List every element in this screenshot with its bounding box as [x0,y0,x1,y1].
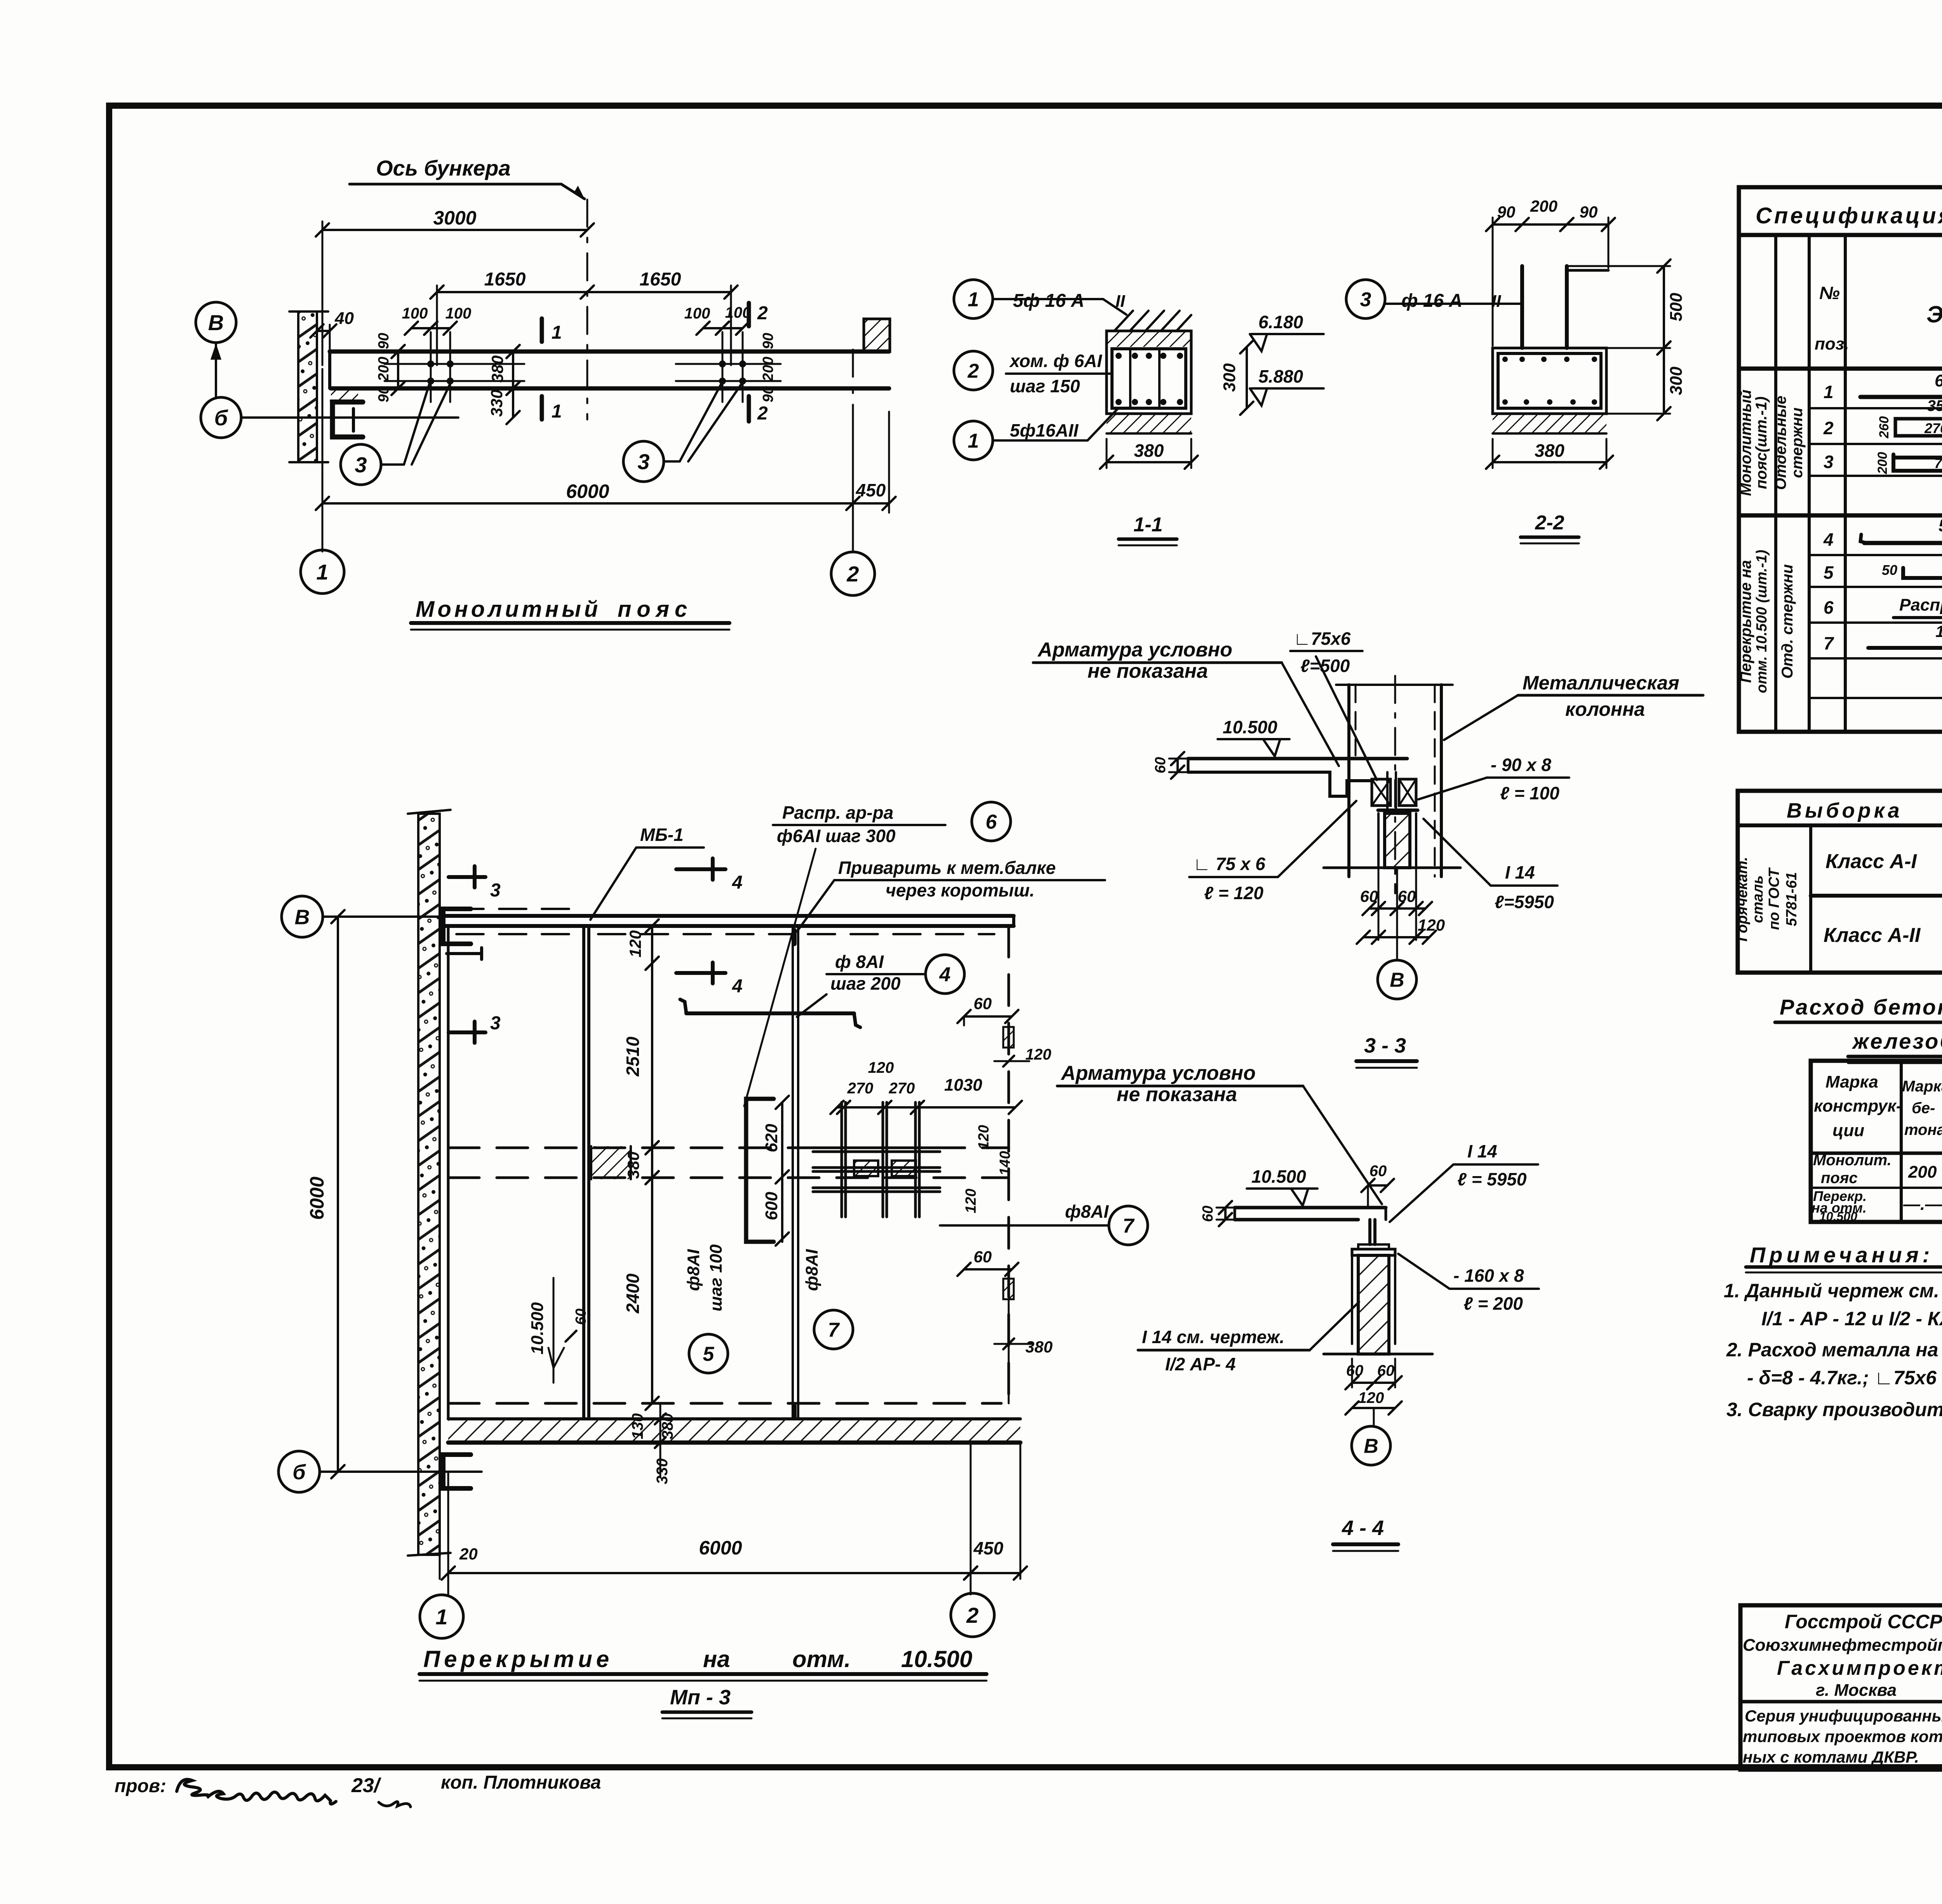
svg-text:1: 1 [552,401,562,422]
spec table title row [1739,233,1942,237]
dim 300 section 1-1 [1246,347,1248,408]
svg-text:300: 300 [1667,366,1686,395]
mesh detail (pos 7) [840,1102,843,1217]
svg-text:23/: 23/ [351,1774,382,1797]
svg-text:по ГОСТ: по ГОСТ [1766,867,1782,930]
section 2-2 concrete [1493,348,1606,414]
monolithic belt beam outline [330,350,889,354]
dim 6000 elevation [322,369,324,552]
svg-text:130: 130 [629,1413,646,1439]
wall section (left) [298,312,317,462]
svg-text:Монолитный: Монолитный [1737,390,1754,496]
svg-text:пров:: пров: [115,1776,166,1796]
svg-text:поз.: поз. [1815,334,1849,353]
svg-text:3: 3 [490,1013,501,1034]
svg-text:200: 200 [1530,197,1557,215]
svg-text:Отдельные: Отдельные [1772,396,1789,490]
svg-text:пояс: пояс [618,597,693,622]
section 1-1 concrete [1107,331,1191,414]
dim 500 [1663,266,1665,348]
svg-text:2400: 2400 [623,1273,643,1314]
svg-text:60: 60 [1200,1206,1216,1222]
svg-text:2: 2 [1823,418,1834,438]
svg-text:колонна: колонна [1565,698,1645,720]
svg-text:Мп - 3: Мп - 3 [670,1686,731,1709]
svg-text:600: 600 [762,1192,781,1220]
column hatched (4-4) [1358,1255,1389,1354]
dims 60 60 below 3-3 [1369,907,1425,910]
svg-text:тона: тона [1904,1121,1942,1138]
plan dashed middle beam [448,1147,1009,1149]
plan left slab edge [447,926,450,1419]
ground break (4-4) [1324,1353,1358,1356]
plan wall section [418,814,440,1555]
svg-text:350: 350 [1927,397,1942,414]
svg-text:3: 3 [637,449,649,474]
svg-text:шаг 100: шаг 100 [706,1244,726,1311]
svg-text:3: 3 [1360,289,1371,311]
svg-text:2. Расход металла на балку: 2. Расход металла на балку МБ-1; I 14 - … [1726,1339,1942,1361]
svg-text:3000: 3000 [433,207,476,229]
svg-text:1650: 1650 [640,269,681,290]
small vertical dims 90/200/90 left [397,352,399,388]
svg-text:Класс А-II: Класс А-II [1824,924,1921,947]
svg-text:4: 4 [732,976,743,997]
svg-text:2510: 2510 [623,1036,643,1077]
axis circle 1 (plan) [420,1595,463,1638]
svg-text:200: 200 [1875,452,1890,475]
svg-text:I 14: I 14 [1505,862,1535,882]
svg-text:ф8АI: ф8АI [1065,1201,1109,1222]
svg-text:В: В [1364,1435,1378,1458]
axis circle б [201,397,241,438]
slab section 4-4 [1235,1206,1386,1210]
dim 120 below 3-3 [1363,936,1429,938]
svg-text:2: 2 [968,360,979,383]
svg-text:через коротыш.: через коротыш. [886,880,1035,900]
svg-text:2-2: 2-2 [1535,512,1564,534]
dim 120 (4-4) [1352,1407,1395,1409]
svg-text:2: 2 [966,1603,978,1627]
svg-text:120: 120 [626,930,644,957]
dim 60 right edge lower + hatch block [964,1268,1012,1270]
svg-text:ф 8АI: ф 8АI [835,952,884,972]
svg-text:380: 380 [1535,440,1564,461]
svg-text:шаг 200: шаг 200 [830,973,901,994]
svg-text:Металлическая: Металлическая [1523,672,1679,694]
svg-text:7: 7 [1824,633,1834,653]
svg-text:Отд. стержни: Отд. стержни [1779,564,1796,679]
svg-text:6.180: 6.180 [1258,312,1303,332]
svg-text:ных с котлами ДКВР.: ных с котлами ДКВР. [1743,1748,1919,1766]
svg-text:В: В [1390,969,1404,992]
section mark 3 lower [449,1030,486,1034]
svg-text:50: 50 [1882,562,1897,578]
svg-text:отм.: отм. [792,1646,851,1672]
svg-text:270: 270 [889,1080,915,1097]
dims 100 100 left [385,363,524,365]
dim 300 section 2-2 [1663,348,1665,414]
leader circle 3 left [341,444,381,485]
svg-text:ф 16 А: ф 16 А [1401,291,1462,311]
svg-text:60: 60 [1377,1362,1395,1379]
svg-text:5.880: 5.880 [1258,366,1303,386]
svg-text:90: 90 [760,386,776,402]
axis В circle and line (plan) [282,896,323,937]
rebar pos 4 line with hooks [686,1011,854,1015]
svg-text:Примечания:: Примечания: [1750,1243,1933,1267]
svg-text:Приварить к мет.балке: Приварить к мет.балке [838,858,1056,878]
svg-text:450: 450 [973,1538,1004,1558]
svg-text:отм. 10.500 (шт.-1): отм. 10.500 (шт.-1) [1754,550,1770,693]
svg-text:60: 60 [1152,757,1169,773]
dim 40 at wall face [329,325,331,352]
svg-text:4: 4 [732,872,743,893]
svg-text:В: В [208,310,224,335]
svg-text:пояс(шт.-1): пояс(шт.-1) [1753,397,1770,489]
svg-text:6390: 6390 [1935,371,1942,390]
svg-text:380: 380 [1025,1338,1053,1356]
svg-text:140: 140 [997,1151,1013,1175]
rebar dots left group [427,360,434,367]
dim 380 section 1-1 [1106,439,1108,468]
svg-text:60: 60 [1346,1362,1364,1379]
svg-text:хом. ф 6АI: хом. ф 6АI [1009,351,1102,371]
svg-text:90: 90 [760,333,776,349]
svg-text:на: на [703,1646,730,1672]
plan bottom slab band hatched [448,1417,1020,1420]
I-beam profile under slab (4-4) [1368,1220,1371,1244]
svg-text:ℓ = 120: ℓ = 120 [1204,883,1263,903]
axis circle В (3-3) [1396,937,1398,960]
consumption table frame [1811,1061,1942,1222]
title block frame [1740,1605,1942,1770]
dim 3000 [322,221,324,365]
section mark 1-1 [540,318,544,342]
svg-text:120: 120 [868,1059,894,1076]
svg-text:ℓ = 100: ℓ = 100 [1500,783,1559,803]
vertical dim 6000 (plan left) [337,917,339,1472]
svg-text:Серия унифицированных: Серия унифицированных [1745,1707,1942,1725]
svg-text:МБ-1: МБ-1 [640,825,684,845]
specification table frame [1739,187,1942,732]
beam end hatch at wall [331,388,358,401]
bottom dim 6000 [448,1572,971,1574]
svg-text:100: 100 [684,305,710,322]
svg-text:стержни: стержни [1789,407,1806,478]
svg-text:90: 90 [376,386,392,402]
section 2-2 stirrup [1498,353,1601,408]
connection plates 3-3 [1372,779,1390,806]
leader circle 3 right [623,441,664,482]
svg-text:ℓ = 5950: ℓ = 5950 [1457,1169,1527,1189]
column at axis 2 (right, hatched) [864,319,890,352]
svg-text:Расход бетона и стали на: Расход бетона и стали на монолитные [1780,995,1942,1019]
dim 1650+1650 [436,285,438,365]
svg-text:20: 20 [459,1545,478,1563]
svg-text:330: 330 [487,390,506,417]
beam МБ-1 vertical [582,926,585,1419]
svg-text:б: б [292,1460,306,1484]
svg-text:120: 120 [963,1189,979,1213]
svg-text:I 14 см. чертеж.: I 14 см. чертеж. [1142,1327,1284,1347]
svg-text:Монолитный: Монолитный [416,597,601,622]
svg-text:4: 4 [939,964,951,986]
plan top beam (axis В) [442,914,1014,918]
section 1-1 stirrup [1112,349,1186,408]
slab section 3-3 [1188,757,1407,761]
svg-text:60: 60 [1398,887,1416,905]
svg-text:—.—: —.— [1903,1195,1942,1214]
svg-text:2: 2 [846,562,859,586]
svg-text:10.500: 10.500 [1819,1210,1857,1224]
svg-text:4 - 4: 4 - 4 [1342,1516,1384,1540]
svg-text:Выборка: Выборка [1787,799,1903,822]
dim 60 slab (4-4) [1216,1207,1235,1209]
plate -160x8 (4-4) [1352,1249,1395,1255]
rebar dots right group [719,360,726,367]
svg-text:90: 90 [1497,203,1516,221]
svg-text:коп. Плотникова: коп. Плотникова [441,1772,601,1793]
svg-text:конструк-: конструк- [1814,1096,1902,1116]
svg-text:ф8АI: ф8АI [684,1249,703,1291]
axis circle В (4-4) [1373,1408,1375,1426]
svg-text:100: 100 [402,305,428,322]
svg-text:1650: 1650 [484,269,526,290]
svg-text:Союзхимнефтестройпроект: Союзхимнефтестройпроект [1743,1636,1942,1655]
metal column 3-3 [1347,685,1350,877]
svg-text:5520: 5520 [1939,516,1942,535]
leader 3 (ф16АII) [1346,280,1385,318]
svg-text:60: 60 [573,1309,589,1325]
svg-text:Ось бункера: Ось бункера [376,156,511,180]
svg-text:270: 270 [1924,420,1942,436]
spec table row lines [1809,407,1942,409]
section mark 4 upper [676,867,726,871]
dims 60 60 (4-4) [1352,1382,1395,1384]
svg-text:300: 300 [1220,363,1239,392]
section mark 3 upper [449,875,486,879]
svg-text:1: 1 [435,1605,447,1629]
opening rect (pos 5) [746,1099,774,1242]
svg-text:5: 5 [703,1343,715,1366]
svg-text:ф8АI: ф8АI [802,1249,821,1291]
axis circle В [196,302,236,343]
beam at section 4-4 vertical [792,926,794,1419]
spec table header row [1739,367,1942,371]
leader 2 (хом ф6АI шаг150) [954,351,993,390]
axis б circle and line (plan) [278,1451,320,1492]
svg-text:6000: 6000 [306,1177,328,1220]
svg-text:3: 3 [490,880,501,901]
svg-text:В: В [295,905,310,929]
axis circle 2 [831,552,875,595]
svg-text:260: 260 [1877,416,1892,439]
svg-text:Арматура условно: Арматура условно [1037,639,1232,661]
dims 90 200 90 top of 2-2 [1492,218,1494,346]
svg-text:7: 7 [1123,1215,1135,1237]
svg-text:ℓ=5950: ℓ=5950 [1495,892,1554,912]
section 2-2 rebar dots [1502,357,1508,362]
leader 1 bottom (5ф16АII) [954,421,993,460]
svg-text:60: 60 [974,994,992,1013]
svg-text:120: 120 [1418,916,1445,934]
section mark 4 lower [676,971,726,975]
svg-text:6000: 6000 [566,480,609,502]
svg-text:бе-: бе- [1912,1100,1935,1117]
section mark 2-2 [747,303,751,326]
svg-text:5ф 16 А: 5ф 16 А [1013,291,1084,311]
svg-text:№: № [1819,283,1840,303]
svg-text:330: 330 [654,1458,671,1485]
channel embed below beam left [332,402,363,437]
svg-text:г. Москва: г. Москва [1816,1681,1897,1700]
svg-text:1030: 1030 [944,1076,982,1095]
ground break line 3-3 [1324,867,1385,869]
svg-text:200: 200 [1908,1163,1937,1182]
svg-text:1: 1 [968,289,979,311]
svg-text:типовых проектов котель-: типовых проектов котель- [1743,1727,1942,1746]
svg-text:- 160 x 8: - 160 x 8 [1453,1265,1524,1286]
svg-text:620: 620 [762,1124,781,1152]
svg-text:Распр. ар-ра: Распр. ар-ра [782,802,893,823]
svg-text:380: 380 [488,355,506,383]
svg-text:1: 1 [1824,382,1834,402]
svg-text:сталь: сталь [1750,875,1766,923]
svg-text:1300: 1300 [1935,622,1942,640]
svg-text:II: II [1491,292,1501,311]
svg-text:I/2 АР- 4: I/2 АР- 4 [1165,1354,1236,1374]
svg-text:Марка: Марка [1902,1078,1942,1095]
dim 450 elevation [853,502,889,505]
svg-text:Монолит.: Монолит. [1813,1152,1892,1169]
svg-text:6: 6 [1824,597,1834,618]
svg-text:10.500: 10.500 [528,1302,547,1354]
svg-text:6000: 6000 [699,1537,742,1559]
axis circle 1 [301,550,344,593]
svg-text:10.500: 10.500 [1223,717,1277,737]
svg-text:200: 200 [760,357,776,381]
dims 330 380 [512,352,514,388]
dim 380 section 2-2 [1492,439,1494,468]
embedded I-beam hatched (3-3) [1385,813,1410,868]
bottom dim 450 [971,1572,1020,1574]
svg-text:100: 100 [445,305,472,322]
svg-text:6: 6 [986,811,997,834]
svg-text:ции: ции [1832,1121,1864,1140]
svg-text:450: 450 [856,480,886,500]
svg-text:∟ 75 x 6: ∟ 75 x 6 [1193,854,1265,874]
bunker center line [586,200,588,419]
svg-text:шаг 150: шаг 150 [1010,376,1080,396]
svg-text:Госстрой СССР: Госстрой СССР [1785,1611,1942,1632]
svg-text:60: 60 [1360,887,1378,905]
svg-text:10.500: 10.500 [901,1646,973,1672]
svg-text:90: 90 [376,333,392,349]
svg-text:120: 120 [1358,1389,1384,1406]
svg-text:б: б [214,406,228,430]
svg-text:3. Сварку производить злек: 3. Сварку производить злектродами типа Э… [1726,1399,1942,1420]
svg-text:Арматура условно: Арматура условно [1060,1062,1256,1084]
svg-text:1: 1 [316,560,328,584]
leader 1 (5ф16АII top) [954,280,993,318]
svg-text:60: 60 [974,1248,992,1266]
svg-text:120: 120 [976,1125,992,1149]
svg-text:Перекрытие: Перекрытие [423,1646,613,1672]
svg-text:∟75x6: ∟75x6 [1293,628,1351,649]
svg-text:40: 40 [334,309,354,328]
svg-text:3 - 3: 3 - 3 [1364,1034,1406,1057]
dims 100 100 right [676,363,781,365]
svg-text:1: 1 [552,322,562,343]
svg-text:- 90 x 8: - 90 x 8 [1491,755,1551,775]
section 1-1 rebar dots [1115,353,1122,359]
svg-text:270: 270 [847,1080,874,1097]
svg-text:5ф16АII: 5ф16АII [1010,420,1079,440]
svg-text:железобетонные: железобетонные [1852,1029,1942,1053]
svg-text:200: 200 [376,357,392,381]
svg-text:500: 500 [1667,292,1686,321]
svg-text:I/1 - АР - 12 и I/2 - КЖ -: I/1 - АР - 12 и I/2 - КЖ - 34. [1761,1308,1942,1330]
svg-text:Распр. ар-ра: Распр. ар-ра [1899,595,1942,614]
svg-text:Класс А-I: Класс А-I [1825,850,1917,873]
svg-text:Перекрытие на: Перекрытие на [1737,560,1754,683]
channel at wall bottom [443,1455,471,1488]
svg-text:Горячекат.: Горячекат. [1734,857,1751,942]
section 2-2 dowel bars [1520,266,1524,348]
svg-text:- δ=8 - 4.7кг.; ∟75x6 -: - δ=8 - 4.7кг.; ∟75x6 - 4.2 кг. [1747,1367,1942,1389]
svg-text:60: 60 [1369,1163,1387,1180]
svg-text:ф6АI шаг 300: ф6АI шаг 300 [777,826,896,846]
svg-text:Спецификация стали на 1 эл: Спецификация стали на 1 элемент [1756,203,1942,228]
axis circle 2 (plan) [951,1593,994,1637]
svg-text:3: 3 [355,453,367,477]
svg-text:1: 1 [968,430,979,453]
svg-text:380: 380 [624,1152,642,1179]
plan bottom dashed line [448,1402,1001,1405]
hatched block on middle beam [591,1146,631,1179]
svg-text:785: 785 [1934,455,1942,471]
svg-text:7: 7 [828,1319,840,1342]
svg-text:I 14: I 14 [1467,1141,1497,1161]
dim 60 right edge upper + hatch block [964,1015,1012,1018]
plan right dashed edge [1008,926,1010,1403]
vertical dim chain 120/2510/380/2400 [651,926,653,963]
svg-text:пояс: пояс [1821,1170,1858,1187]
svg-text:Марка: Марка [1825,1072,1878,1091]
svg-text:90: 90 [1580,203,1598,221]
svg-text:ℓ = 200: ℓ = 200 [1463,1293,1523,1314]
svg-text:1-1: 1-1 [1133,513,1162,536]
channel at wall top [443,909,471,944]
svg-text:4: 4 [1823,529,1834,550]
steel summary table frame [1738,791,1942,973]
dim 620/600 rotated [781,1102,783,1177]
svg-text:2: 2 [757,403,768,424]
svg-text:Гасхимпроект: Гасхимпроект [1777,1657,1942,1679]
svg-text:1. Данный чертеж см. совмест: 1. Данный чертеж см. совместно с листами [1724,1280,1942,1302]
svg-text:380: 380 [1134,440,1164,461]
svg-text:10.500: 10.500 [1251,1166,1306,1187]
svg-text:5781-61: 5781-61 [1784,872,1800,926]
svg-text:Эскиз: Эскиз [1926,301,1942,327]
svg-text:5: 5 [1824,562,1834,583]
svg-text:2: 2 [757,303,768,324]
mesh dims [837,1106,1015,1109]
svg-text:3: 3 [1824,452,1834,472]
dim 60 slab thickness 3-3 [1169,758,1188,760]
